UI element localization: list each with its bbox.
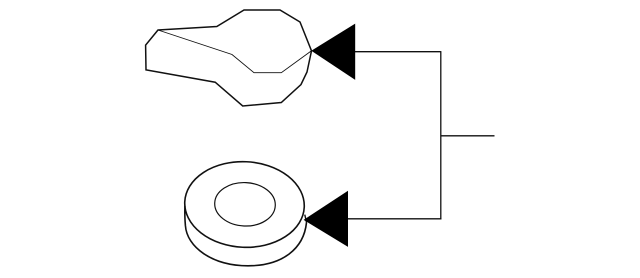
callout arrow 1 (cap) bbox=[311, 24, 355, 80]
seal ring inner hole ellipse bbox=[214, 181, 276, 227]
callout arrow 2 (seal ring) bbox=[304, 191, 348, 247]
leader line vertical bbox=[440, 51, 442, 219]
leader tick horizontal bbox=[441, 135, 495, 137]
seal ring top outer ellipse bbox=[183, 159, 306, 250]
seal ring right wall bbox=[305, 215, 307, 223]
leader line top horizontal bbox=[355, 51, 441, 53]
leader line bottom horizontal bbox=[348, 218, 441, 220]
seal ring left wall bbox=[184, 206, 187, 226]
filler cap inner edge line bbox=[158, 30, 312, 73]
seal ring bottom rim arc bbox=[185, 223, 306, 266]
filler cap outer outline bbox=[146, 10, 312, 106]
